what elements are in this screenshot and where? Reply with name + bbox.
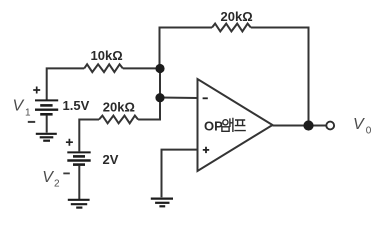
svg-text:0: 0 (366, 125, 372, 136)
svg-text:20kΩ: 20kΩ (103, 99, 135, 114)
wire R1 to node A (123, 67, 160, 69)
battery V2 minus sign (63, 172, 70, 174)
ground V1 (36, 134, 57, 141)
battery V1 minus sign (28, 121, 35, 123)
resistor R1 10k zigzag (84, 64, 123, 72)
resistor R_f 20k zigzag (212, 24, 251, 32)
wire node A to node B vertical (159, 69, 161, 98)
node A junction dot (155, 64, 164, 73)
svg-text:V: V (42, 169, 54, 186)
node output junction dot (303, 120, 313, 130)
svg-text:OP: OP (204, 119, 223, 134)
wire feedback right (251, 28, 309, 126)
svg-text:2: 2 (54, 179, 60, 190)
svg-text:V: V (353, 116, 365, 133)
battery V2 (67, 152, 90, 164)
op-amp U1 plus pin label (203, 147, 209, 153)
svg-text:V: V (13, 97, 25, 114)
wire V2 branch (79, 120, 99, 152)
svg-text:10kΩ: 10kΩ (91, 48, 123, 63)
svg-text:1.5V: 1.5V (63, 98, 90, 113)
label V2 (42, 169, 60, 190)
wire output (273, 125, 326, 127)
battery V1 plus sign (33, 87, 40, 94)
wire V1 branch horizontal (47, 68, 84, 99)
resistor R2 20k zigzag (99, 116, 138, 124)
node B junction dot (155, 93, 164, 102)
label V0 output (353, 116, 372, 136)
op-amp U1 minus pin label (203, 97, 208, 99)
op-amp U1 name label OP앰프 (204, 118, 246, 134)
wire feedback top (160, 28, 213, 69)
svg-text:2V: 2V (103, 152, 119, 167)
wire battery V1 to ground (46, 115, 48, 132)
wire R2 to node B (138, 98, 160, 120)
battery V2 plus sign (66, 139, 73, 146)
svg-text:20kΩ: 20kΩ (221, 9, 253, 24)
ground V2 (68, 200, 90, 208)
battery V1 (35, 100, 58, 114)
wire noninverting input (162, 150, 198, 198)
wire inverting input (160, 97, 198, 100)
wire battery V2 to ground (78, 166, 80, 199)
ground U1 noninverting (151, 199, 173, 207)
svg-text:1: 1 (25, 108, 31, 119)
label V1 (13, 97, 32, 118)
output terminal open circle (326, 122, 334, 130)
op-amp U1 (198, 79, 273, 171)
